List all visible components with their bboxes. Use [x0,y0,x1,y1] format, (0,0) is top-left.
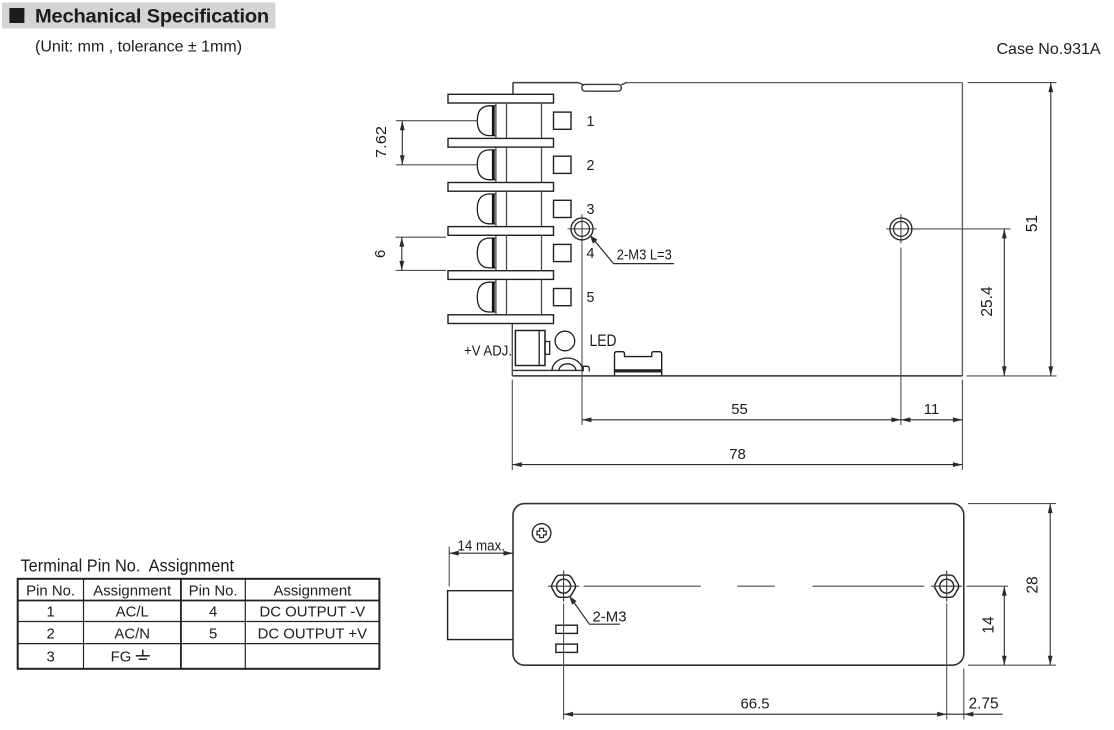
terminal screw 2 [477,150,495,180]
top view case right edge [961,83,963,376]
terminal block protrusion side view [448,591,513,640]
svg-text:5: 5 [587,290,595,306]
side view phillips screw [532,524,551,543]
svg-text:4: 4 [587,246,595,262]
terminal screw 4 [477,238,495,268]
extension line top right corner [968,82,1057,84]
svg-text:Assignment: Assignment [273,583,352,599]
svg-text:Terminal Pin No. Assignment: Terminal Pin No. Assignment [21,556,235,576]
svg-text:(Unit: mm , tolerance ± 1mm): (Unit: mm , tolerance ± 1mm) [35,39,242,56]
dimension 6 line [399,237,404,270]
component screw circle [555,331,575,351]
extension line left nut down [563,603,565,719]
dimension 7.62 line [400,121,405,165]
svg-text:66.5: 66.5 [741,697,770,713]
svg-text:AC/N: AC/N [114,626,150,642]
svg-text:7.62: 7.62 [373,126,390,158]
extension line side view bottom right [968,664,1056,666]
svg-text:14: 14 [981,616,998,634]
terminal body lines gap 1 [496,103,542,138]
pin pad square 1 [554,112,572,129]
dimension 14 line side view [1002,586,1007,665]
table row 2 [46,626,367,642]
svg-text:11: 11 [924,402,939,418]
pin pad square 2 [554,156,572,173]
terminal body lines gap 5 [496,279,542,314]
pin pad square 5 [554,289,572,306]
side view mounting nut right [931,571,962,602]
grommet dome [552,358,582,370]
side view case outline [513,504,964,666]
extension line right nut to 14 dim [967,585,1009,587]
terminal block bar 1 [448,94,554,103]
dimension 7.62 extension lines [396,121,478,165]
pin pad square 4 [554,244,572,261]
svg-text:25.4: 25.4 [979,286,996,317]
terminal body lines gap 4 [496,235,542,270]
top view case top-left step [512,83,514,95]
svg-text:3: 3 [46,649,54,665]
table grid [18,579,380,669]
potentiometer +V ADJ body [515,331,549,366]
extension line case left edge down [511,380,513,471]
terminal block bar 3 [448,183,554,192]
svg-text:14 max.: 14 max. [458,539,506,555]
terminal block bar 5 [448,271,554,280]
leader 2-M3 L=3 [590,235,674,264]
svg-text:2.75: 2.75 [969,696,999,713]
table header row [26,583,352,599]
svg-text:Mechanical Specification: Mechanical Specification [35,5,269,27]
terminal screw 5 [477,282,495,312]
leader 2-M3 [569,596,620,624]
terminal screw 3 [477,194,495,224]
dimension 14 max line [449,551,513,556]
svg-text:2-M3: 2-M3 [593,609,627,625]
dimension 28 line [1048,504,1053,666]
top view mounting hole right [886,214,915,243]
extension line from right hole to 25.4 dim [913,228,1011,230]
svg-text:6: 6 [372,250,389,258]
svg-text:Pin No.: Pin No. [189,583,238,599]
terminal block bar 4 [448,227,554,236]
svg-text:Pin No.: Pin No. [26,583,75,599]
top view case left edge lower segment [511,324,513,376]
table row 3 [46,649,131,665]
svg-text:Assignment: Assignment [93,583,172,599]
svg-text:2: 2 [46,626,54,642]
extension line side view top right [968,503,1056,505]
svg-text:FG: FG [111,649,132,665]
svg-text:2-M3 L=3: 2-M3 L=3 [617,247,672,263]
dimension 51 line [1048,83,1053,376]
table row 1 [46,605,365,621]
svg-text:28: 28 [1025,576,1042,593]
extension line from left hole down [581,244,583,426]
svg-text:LED: LED [590,332,617,350]
dimension 55 line [582,417,901,422]
top view case inner bottom ledge [512,369,583,371]
dimension 25.4 line [1002,229,1007,376]
section header highlight bar [2,3,276,29]
svg-text:1: 1 [46,605,54,621]
terminal block bar 2 [448,138,554,147]
vent slot lower [556,644,578,652]
dimension 6 extension lines [396,237,446,270]
svg-text:1: 1 [587,114,595,130]
terminal screw 1 [477,106,495,136]
dimension 14 max extension line [448,547,450,587]
dimension 66.5 line [564,712,947,717]
svg-text:5: 5 [209,626,217,642]
terminal block bar 6 [448,315,554,324]
bottom edge latch tab [583,366,589,371]
dimension 11 line [901,417,963,422]
terminal body lines gap 3 [496,191,542,226]
pin pad square 3 [554,200,572,217]
side view mounting nut left [548,571,579,602]
top view case top edge right segment [627,82,962,84]
vent slot upper [556,625,578,633]
extension line bottom right corner [967,375,1057,377]
dimension 78 line [512,462,962,467]
svg-text:3: 3 [587,202,595,218]
extension line from right hole down [900,248,902,426]
top view mounting hole left [568,214,597,243]
svg-text:DC OUTPUT +V: DC OUTPUT +V [258,626,367,642]
svg-text:+V ADJ.: +V ADJ. [464,343,512,359]
top view case bottom edge [512,375,962,377]
svg-text:Case No.931A: Case No.931A [997,41,1101,58]
svg-text:4: 4 [209,605,217,621]
top view case top edge left segment [513,82,578,84]
output connector [615,352,662,376]
svg-text:DC OUTPUT -V: DC OUTPUT -V [260,605,366,621]
svg-text:51: 51 [1024,215,1041,232]
svg-text:78: 78 [729,447,746,463]
header bullet square [9,8,24,23]
center dashed line [584,585,925,587]
extension line right nut down [946,603,948,719]
terminal body lines gap 2 [496,147,542,182]
top view case top edge vent slot [578,83,584,85]
dimension 2.75 line [947,712,1003,717]
extension line case right edge down side view [963,669,965,720]
FG earth ground symbol [136,650,150,660]
svg-text:55: 55 [731,402,748,418]
svg-text:AC/L: AC/L [116,605,149,621]
extension line case right edge down [961,380,963,471]
svg-text:2: 2 [587,158,595,174]
